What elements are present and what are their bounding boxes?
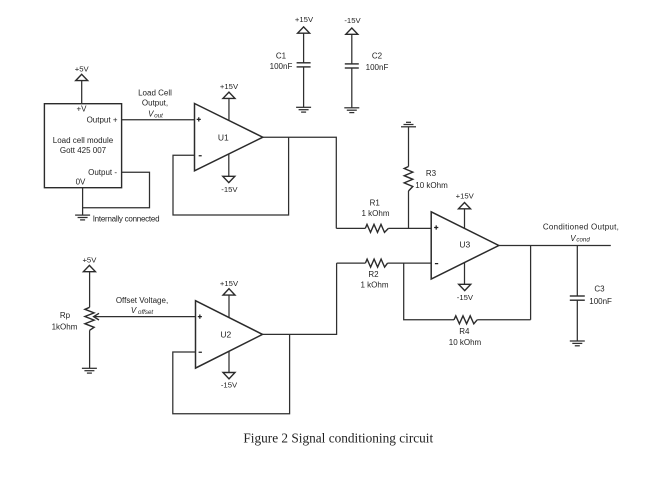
power -15V (U2) (221, 351, 238, 389)
wire output- loop (83, 172, 150, 208)
node label Conditioned Output, Vcond (543, 223, 619, 244)
wire ground to R3 (408, 127, 410, 167)
svg-text:0V: 0V (76, 178, 86, 187)
power +15V (U1) (220, 82, 239, 120)
power +5V (load cell) (75, 65, 90, 104)
svg-text:+V: +V (76, 105, 87, 114)
ground (R3 top, inverted) (401, 122, 416, 127)
wire Rp to ground (89, 330, 91, 368)
ground (C2) (344, 108, 359, 113)
svg-text:+15V: +15V (220, 279, 239, 288)
ground (load cell) (75, 215, 90, 220)
svg-text:out: out (154, 112, 163, 119)
resistor R1 (336, 198, 431, 232)
svg-text:R1: R1 (370, 198, 381, 207)
svg-text:Rp: Rp (60, 311, 71, 320)
svg-text:10 kOhm: 10 kOhm (415, 181, 448, 190)
potentiometer Rp (52, 307, 99, 331)
ground (C1) (296, 107, 311, 112)
svg-text:U1: U1 (218, 132, 229, 142)
resistor R2 (337, 259, 432, 290)
svg-text:+5V: +5V (82, 255, 97, 264)
svg-text:V: V (148, 110, 154, 119)
svg-text:100nF: 100nF (270, 62, 293, 71)
svg-text:Offset Voltage,: Offset Voltage, (116, 296, 168, 305)
power -15V (U3) (457, 263, 474, 303)
wire U2 output to R2 (263, 263, 337, 334)
resistor R3 (404, 167, 448, 192)
svg-text:100nF: 100nF (589, 297, 612, 306)
svg-text:Gott 425 007: Gott 425 007 (60, 146, 107, 155)
svg-text:Load Cell: Load Cell (138, 88, 172, 97)
svg-text:-15V: -15V (344, 16, 361, 25)
wire C3 to ground (576, 300, 578, 341)
wire C2 to ground (351, 68, 353, 108)
power -15V (C2) (344, 16, 361, 64)
svg-text:cond: cond (576, 237, 590, 244)
op-amp U3 (431, 212, 499, 279)
svg-text:Figure 2 Signal conditioning c: Figure 2 Signal conditioning circuit (243, 431, 433, 446)
svg-text:-15V: -15V (221, 380, 238, 389)
svg-text:10 kOhm: 10 kOhm (449, 338, 482, 347)
svg-text:Load cell module: Load cell module (53, 136, 114, 145)
capacitor C3 (570, 284, 612, 306)
wire output+ to U1 (122, 119, 195, 121)
resistor R4 (404, 263, 531, 347)
wire 0V to ground (82, 188, 84, 215)
wire R4 to output node (530, 246, 532, 320)
wire U1 output (263, 137, 337, 228)
svg-text:100nF: 100nF (366, 63, 389, 72)
svg-text:R4: R4 (459, 327, 470, 336)
wire output to C3 (576, 246, 578, 297)
power +15V (U3) (456, 191, 475, 229)
svg-text:Output +: Output + (87, 116, 118, 125)
svg-text:U3: U3 (459, 240, 470, 250)
svg-text:Internally connected: Internally connected (93, 215, 160, 224)
wire U1 feedback (173, 137, 289, 215)
svg-text:1kOhm: 1kOhm (52, 323, 78, 332)
power +5V (Rp) (82, 255, 97, 307)
svg-text:Conditioned Output,: Conditioned Output, (543, 223, 619, 232)
wire R3 to node (408, 191, 410, 228)
svg-text:V: V (570, 234, 576, 243)
wire U3 output (499, 245, 611, 247)
node label Load Cell Output, Vout (138, 88, 172, 119)
svg-text:U2: U2 (220, 329, 231, 339)
wire Rp wiper to U2 (94, 316, 196, 318)
ground (Rp) (82, 368, 97, 373)
ground (C3) (570, 341, 585, 346)
svg-text:+5V: +5V (75, 65, 90, 74)
svg-text:Output -: Output - (88, 168, 117, 177)
op-amp U2 (196, 301, 263, 368)
svg-text:V: V (131, 306, 137, 315)
svg-text:C1: C1 (276, 52, 287, 61)
svg-text:1 kOhm: 1 kOhm (361, 209, 389, 218)
svg-text:offset: offset (138, 309, 153, 316)
svg-text:-15V: -15V (457, 293, 474, 302)
power +15V (U2) (220, 279, 239, 318)
capacitor C2 (345, 52, 389, 72)
svg-text:R2: R2 (368, 270, 379, 279)
svg-text:R3: R3 (426, 169, 437, 178)
capacitor C1 (270, 52, 311, 71)
node label Offset Voltage, Voffset (116, 296, 168, 316)
svg-text:C3: C3 (594, 284, 605, 293)
load cell module (44, 104, 121, 188)
wire C1 to ground (303, 67, 305, 107)
power +15V (C1) (295, 15, 314, 63)
svg-text:Output,: Output, (142, 98, 168, 107)
svg-text:+15V: +15V (295, 15, 314, 24)
wire U2 feedback (173, 334, 290, 413)
power -15V (U1) (221, 154, 238, 194)
svg-text:+15V: +15V (456, 191, 475, 200)
svg-text:C2: C2 (372, 52, 383, 61)
op-amp U1 (195, 104, 263, 171)
svg-text:1 kOhm: 1 kOhm (360, 281, 388, 290)
svg-text:-15V: -15V (221, 185, 238, 194)
svg-text:+15V: +15V (220, 82, 239, 91)
